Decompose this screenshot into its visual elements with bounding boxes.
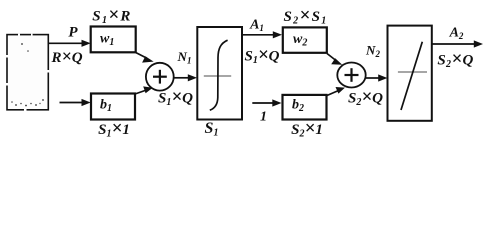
- svg-text:S1×R: S1×R: [92, 5, 131, 27]
- axis layer2: [398, 71, 427, 73]
- weight box w2: [283, 27, 327, 52]
- purelin line: [401, 42, 422, 110]
- svg-text:1: 1: [260, 110, 267, 125]
- wire A1 arrow: [242, 31, 282, 38]
- weight box w1: [91, 27, 136, 53]
- wire sum1 to layer1: [174, 74, 197, 81]
- wire w2 to sum2: [327, 54, 342, 65]
- wire P arrow: [48, 40, 90, 47]
- wire b1 to sum1: [135, 86, 153, 94]
- bias box b1: [91, 94, 135, 120]
- wire w1 to sum1: [136, 53, 154, 63]
- wire A2 arrow: [432, 40, 483, 47]
- svg-text:P: P: [68, 25, 78, 41]
- wire bias2 arrow: [252, 99, 281, 106]
- tansig curve: [210, 40, 228, 110]
- sum junction 2: [337, 63, 365, 88]
- svg-text:S2×1: S2×1: [291, 118, 323, 140]
- transfer box layer2: [388, 26, 432, 121]
- transfer box layer1: [197, 27, 242, 120]
- svg-text:S1×Q: S1×Q: [158, 87, 193, 109]
- svg-text:S2×Q: S2×Q: [437, 49, 473, 71]
- input block P: [6, 34, 49, 111]
- svg-text:S2×S1: S2×S1: [283, 5, 327, 27]
- sum junction 1: [146, 63, 174, 91]
- wire sum2 to layer2: [366, 74, 387, 81]
- svg-text:S2×Q: S2×Q: [348, 87, 383, 109]
- bias box b2: [283, 95, 327, 120]
- wire bias1 arrow: [60, 99, 91, 106]
- wire b2 to sum2: [327, 87, 345, 96]
- axis layer1: [204, 75, 231, 77]
- svg-text:S1×1: S1×1: [98, 118, 130, 140]
- svg-text:S1×Q: S1×Q: [244, 45, 279, 67]
